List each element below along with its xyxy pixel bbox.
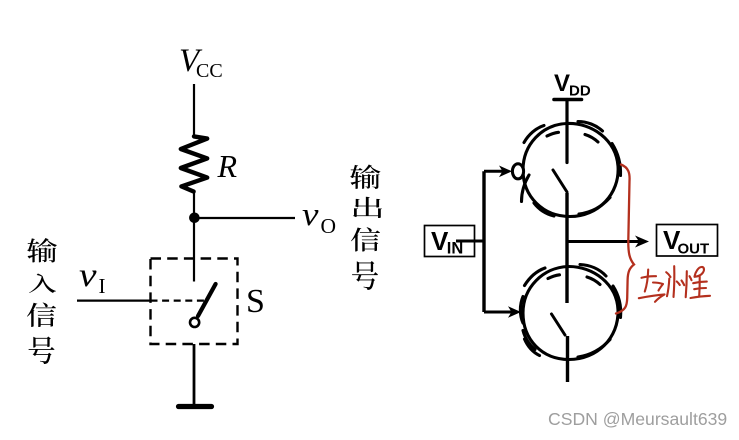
label 输入信号 (input signal) — [27, 238, 57, 364]
wire resistor to node — [193, 191, 195, 218]
switch enclosure dashed box — [151, 259, 238, 345]
svg-text:V: V — [554, 70, 570, 97]
svg-text:O: O — [321, 214, 337, 238]
svg-text:CC: CC — [196, 60, 223, 82]
svg-text:OUT: OUT — [678, 241, 710, 258]
wire PMOS drain down to output node and NMOS — [565, 193, 568, 303]
NMOS internal switch — [552, 314, 566, 335]
dashed control line — [151, 300, 206, 302]
arrow into PMOS gate — [484, 170, 503, 173]
svg-text:DD: DD — [569, 83, 591, 100]
svg-text:CSDN @Meursault639: CSDN @Meursault639 — [548, 409, 727, 429]
PMOS internal switch — [553, 170, 567, 192]
PMOS gate bubble — [512, 164, 523, 179]
svg-text:v: v — [302, 197, 319, 233]
red note 互补性 (complementary) — [639, 266, 710, 302]
node junction dot — [189, 213, 200, 224]
input wire v_I — [77, 300, 151, 302]
label 输出信号 (output signal) — [350, 165, 382, 291]
VDD rail bar — [554, 98, 582, 102]
wire VDD to PMOS — [565, 100, 568, 163]
output box V_OUT — [657, 225, 718, 257]
svg-text:I: I — [99, 274, 106, 298]
input box V_IN — [425, 226, 475, 257]
transistor PMOS circle — [522, 122, 621, 217]
wire V_IN to branch — [456, 240, 485, 243]
wire switch to ground — [193, 344, 196, 405]
ground bar — [179, 404, 212, 409]
svg-text:v: v — [79, 257, 98, 294]
switch S arm — [198, 284, 216, 316]
resistor R — [181, 136, 207, 191]
red annotation brace — [616, 165, 634, 314]
arrow to NMOS gate — [484, 311, 512, 314]
wire NMOS source down — [566, 336, 569, 382]
wire node into switch box — [193, 218, 195, 282]
input branch vertical wire — [482, 171, 485, 312]
output wire to V_OUT — [567, 240, 639, 243]
svg-text:S: S — [246, 283, 265, 320]
svg-text:R: R — [217, 148, 238, 184]
transistor NMOS circle — [520, 265, 620, 360]
wire VCC to resistor — [193, 84, 195, 137]
switch pivot circle — [190, 318, 199, 327]
wire node to v_O — [194, 217, 295, 219]
